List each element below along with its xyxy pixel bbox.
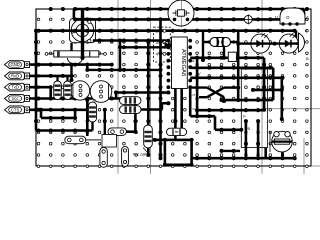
svg-text:B: B bbox=[306, 56, 309, 61]
svg-text:TxD: TxD bbox=[11, 85, 19, 90]
svg-text:R5: R5 bbox=[245, 126, 251, 131]
transistor Q1 bbox=[70, 81, 89, 100]
connector label TxD bbox=[5, 83, 30, 91]
svg-text:V: V bbox=[275, 15, 278, 20]
svg-text:n: n bbox=[193, 106, 195, 111]
resistor R3 bbox=[144, 125, 153, 148]
wire pin1 row bbox=[93, 39, 169, 43]
wire bus row1 bbox=[36, 29, 297, 44]
trimmer RP2 bbox=[270, 131, 292, 152]
wire Vcc net bbox=[28, 97, 138, 101]
resistor R7 bbox=[120, 97, 142, 105]
wire TX trace bbox=[138, 101, 170, 111]
wire row to IC left bbox=[85, 65, 162, 72]
transistor Q3 bbox=[299, 28, 308, 52]
svg-text:n: n bbox=[305, 28, 307, 33]
svg-text:O: O bbox=[286, 15, 290, 20]
wire hook middle bbox=[190, 66, 273, 102]
connector label CTS bbox=[5, 106, 30, 114]
svg-text:Рис.сайт: Рис.сайт bbox=[133, 153, 148, 157]
jumper J2 bbox=[108, 128, 126, 135]
wire IC right column bbox=[195, 56, 199, 118]
connector label GND bbox=[5, 61, 30, 69]
svg-text:RX: RX bbox=[161, 90, 167, 95]
svg-text:ATMEGA8: ATMEGA8 bbox=[180, 49, 186, 76]
resistor R1 horizontal bbox=[45, 51, 106, 57]
wire LED row bbox=[238, 42, 299, 46]
resistor R6 bbox=[88, 102, 96, 122]
connector outline dashed bbox=[154, 27, 171, 62]
capacitor C4 bbox=[228, 52, 236, 61]
wire hook outer bbox=[190, 56, 266, 112]
wire top bus row0 bbox=[73, 9, 281, 21]
fold line D bbox=[303, 138, 305, 174]
wire bottom bus bbox=[192, 148, 297, 161]
wire IC left vertical V1 bbox=[159, 17, 163, 157]
svg-text:GND: GND bbox=[10, 62, 19, 67]
wire CTS net bbox=[28, 108, 89, 118]
jumper J1 lead bbox=[86, 139, 101, 141]
caption text bbox=[133, 148, 148, 157]
wire V1 bottom bbox=[159, 155, 163, 160]
svg-text:RxD: RxD bbox=[11, 73, 19, 78]
wire C5 feed bbox=[103, 108, 107, 135]
svg-text:CTS: CTS bbox=[11, 107, 20, 112]
jumper J1 bbox=[65, 136, 86, 144]
LED D1 bbox=[251, 33, 270, 53]
connector label RxD bbox=[5, 72, 30, 80]
resistor R4 bbox=[54, 81, 62, 100]
wire pot wiper vertical bbox=[72, 9, 85, 60]
connector label Vcc bbox=[5, 95, 30, 103]
socket XS1 outline bbox=[241, 69, 267, 147]
wire below IC a bbox=[173, 89, 177, 140]
capacitor C5 vertical bbox=[100, 147, 107, 167]
IC U1 ATMEGA8 bbox=[161, 37, 201, 111]
wire IC left vertical V2 bbox=[146, 40, 150, 125]
wire RxD net bbox=[28, 63, 74, 82]
wire crystal link bbox=[171, 9, 175, 21]
resistor R2 bbox=[210, 38, 231, 47]
wire socket verticals bbox=[244, 119, 260, 158]
polarity arrow bbox=[165, 42, 175, 49]
crystal axis line bbox=[181, 0, 183, 27]
wire vertical 224 bbox=[222, 47, 226, 60]
wire loop square bbox=[153, 138, 194, 167]
svg-text:n: n bbox=[193, 92, 195, 97]
wire trimmer stub bbox=[281, 152, 284, 158]
fold line B bbox=[150, 0, 152, 174]
resistor R5 bbox=[64, 81, 72, 100]
resistor R8 bbox=[120, 106, 142, 114]
svg-text:Vcc: Vcc bbox=[12, 96, 19, 101]
svg-text:V: V bbox=[198, 71, 201, 76]
test point bbox=[243, 14, 253, 24]
wire bottom left row bbox=[36, 129, 93, 133]
wire RX trace bbox=[114, 91, 170, 99]
wire branch col120 bbox=[118, 39, 170, 72]
wire TxD net bbox=[28, 85, 53, 100]
svg-text:P: P bbox=[243, 114, 246, 119]
potentiometer RP1 bbox=[70, 18, 96, 42]
capacitor C6 vertical bbox=[122, 146, 129, 166]
crystal ZQ1 bbox=[168, 0, 194, 26]
wire short row bbox=[220, 149, 241, 153]
wire X crossing bbox=[190, 88, 238, 103]
wire R2 feed bbox=[201, 31, 238, 62]
wire below IC c bbox=[190, 87, 243, 132]
svg-text:S: S bbox=[306, 16, 309, 21]
wire hook inner bbox=[190, 76, 284, 121]
wire transistor to jumper bbox=[85, 98, 89, 136]
wire V3 bbox=[126, 99, 137, 134]
fold line E bbox=[262, 108, 320, 110]
wire R6 bottom stub bbox=[91, 122, 93, 131]
voltage regulator U2 bbox=[275, 8, 309, 26]
jumper J3 bbox=[167, 128, 187, 135]
wire R2 LED vertical bbox=[236, 31, 240, 102]
fold line A bbox=[117, 0, 119, 174]
wire R3 bottom bbox=[146, 148, 150, 157]
wire left border bus bbox=[34, 29, 38, 131]
fold line C bbox=[261, 0, 263, 174]
wire below IC b bbox=[180, 89, 183, 129]
transistor Q2 bbox=[90, 81, 112, 103]
wire bottom-left link bbox=[39, 108, 77, 120]
jumper arc bbox=[68, 58, 83, 64]
component box X2 bbox=[102, 135, 117, 148]
wire top border bus bbox=[49, 7, 309, 15]
svg-text:TX: TX bbox=[162, 101, 167, 106]
wire GND net bbox=[28, 63, 114, 67]
LED D2 bbox=[279, 33, 298, 53]
